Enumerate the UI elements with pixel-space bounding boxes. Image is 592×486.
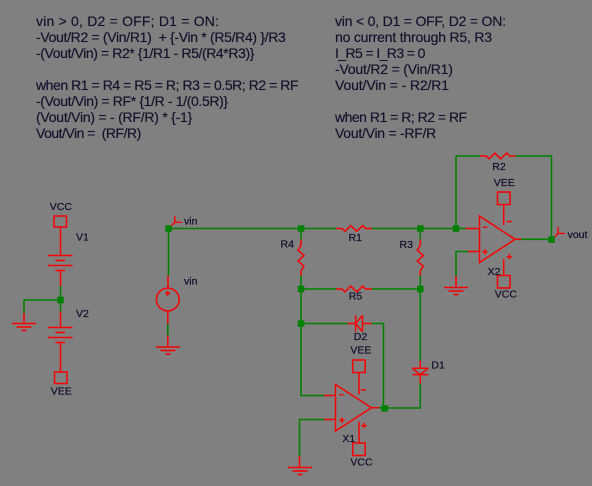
- wire VCC box to V1 top: [60, 227, 62, 256]
- junction node vin: [165, 225, 172, 232]
- diode D2 triangle: [356, 315, 363, 331]
- svg-text:VEE: VEE: [494, 177, 515, 189]
- ground symbol (under source vin): [156, 347, 180, 354]
- junction node X2 inverting input / feedback: [453, 225, 460, 232]
- battery V2: [48, 328, 73, 343]
- wire V1 bottom to mid-rail junction: [60, 286, 62, 297]
- op-amp X1 triangle: [336, 385, 372, 432]
- diode D1 (pointing down) top stub: [419, 361, 421, 369]
- op-amp X2 plus input mark: [482, 249, 487, 254]
- junction node D2 anode: [298, 320, 305, 327]
- wire R3 bottom stub: [419, 276, 421, 287]
- op-amp X1 VEE supply box: [353, 360, 366, 373]
- wire R5 right segment: [372, 288, 417, 290]
- svg-text:X2: X2: [488, 266, 501, 278]
- VCC supply port symbol (left rail): [54, 216, 67, 227]
- svg-text:vin: vin: [184, 276, 198, 288]
- junction node vout: [548, 236, 555, 243]
- source vin pin stub bottom: [167, 311, 169, 324]
- wire D2 cathode to X1 output junction: [372, 324, 384, 406]
- wire vin node to source vin: [168, 232, 170, 276]
- wire D1 to X1 output junction: [388, 384, 421, 409]
- wire vin rail: vin node to R1: [172, 228, 337, 230]
- op-amp X1 VEE pin wire: [358, 373, 360, 395]
- wire X2 output to vout junction: [521, 238, 549, 240]
- diode D2 (pointing left) anode stub: [348, 323, 357, 325]
- ground pin stub (X1 non-inverting input): [299, 456, 301, 468]
- svg-text:R3: R3: [400, 239, 414, 251]
- junction node R4 top: [298, 225, 305, 232]
- wire R5 left segment: [304, 288, 336, 290]
- op-amp X1 plus input mark: [339, 418, 344, 423]
- node flag marker vout: [553, 227, 565, 239]
- resistor R5 (horizontal): [336, 286, 372, 292]
- svg-text:V1: V1: [76, 232, 89, 244]
- ground pin stub (X2 non-inverting input): [455, 276, 457, 288]
- junction node left rail mid: [57, 297, 64, 304]
- op-amp X2 minus input mark: [483, 226, 487, 228]
- wire source vin to ground: [167, 324, 169, 336]
- junction node R4/R5 left: [298, 286, 305, 293]
- wire R2 left segment: [456, 155, 480, 157]
- resistor R4 (vertical): [298, 240, 304, 276]
- diode D2 cathode-side stub: [363, 323, 372, 325]
- svg-text:R2: R2: [492, 161, 506, 173]
- svg-text:D2: D2: [354, 331, 368, 343]
- wire vin rail: R1 to X2 inverting input: [372, 228, 466, 230]
- wire R4 bottom stub: [300, 276, 302, 287]
- wire mid-rail junction to left ground: [24, 300, 58, 313]
- wire V2 bottom to VEE box: [60, 343, 62, 373]
- wire X2 plus input to ground: [456, 252, 468, 277]
- wire D2 node down to X1 inverting input: [301, 327, 324, 396]
- voltage source vin (circle): [156, 288, 179, 311]
- op-amp X2 VCC polarity mark: [507, 254, 512, 259]
- op-amp X1 inverting input pin stub: [324, 395, 336, 397]
- resistor R2 (horizontal, feedback): [480, 153, 516, 159]
- node flag marker vin: [170, 216, 183, 228]
- op-amp X1 minus input mark: [339, 394, 343, 396]
- svg-text:X1: X1: [342, 433, 355, 445]
- wire R3 top stub: [419, 232, 421, 240]
- diode D1 bottom stub: [419, 375, 421, 384]
- ground pin stub (left ground): [23, 313, 25, 324]
- op-amp X2 VEE polarity mark: [507, 221, 512, 223]
- junction node R3 top: [417, 225, 424, 232]
- wire V1 bottom pin stub: [60, 271, 62, 287]
- op-amp X2 non-inverting input pin stub: [468, 251, 480, 253]
- wire R4/R5 node down to D2 node: [300, 292, 302, 321]
- wire D2 node to D2 anode: [304, 323, 348, 325]
- ground symbol (X1 non-inverting input): [288, 468, 312, 475]
- op-amp X2 output pin stub: [515, 238, 521, 240]
- wire X1 plus input to ground: [300, 420, 325, 457]
- wire mid-rail junction down: [60, 303, 62, 312]
- op-amp X2 VCC supply box: [498, 276, 511, 289]
- wire R2 right segment to vout vertical: [516, 156, 552, 237]
- svg-text:vout: vout: [568, 229, 588, 241]
- VEE supply port symbol (left rail): [55, 372, 68, 384]
- svg-text:VCC: VCC: [495, 289, 518, 301]
- wire X2 feedback left vertical: [455, 156, 457, 226]
- svg-text:R4: R4: [281, 238, 295, 250]
- analysis note: vin > 0 case (left text block): [36, 13, 298, 141]
- battery V1: [48, 256, 73, 271]
- op-amp X1 VEE polarity mark: [361, 389, 366, 391]
- ground symbol (left, mid-rail): [12, 324, 36, 331]
- ground pin stub (under source vin): [167, 336, 169, 348]
- svg-text:VCC: VCC: [50, 201, 73, 213]
- diode D1 cathode bar: [412, 374, 428, 376]
- resistor R3 (vertical): [417, 240, 423, 276]
- op-amp X1 non-inverting input pin stub: [324, 419, 336, 421]
- op-amp X2 VEE pin wire: [503, 205, 505, 226]
- op-amp X1 output pin stub: [372, 407, 380, 409]
- svg-text:VCC: VCC: [350, 457, 373, 469]
- op-amp X1 VCC pin wire: [358, 422, 360, 444]
- op-amp X2 triangle: [480, 216, 516, 263]
- svg-text:R1: R1: [349, 232, 363, 244]
- diode D1 triangle: [412, 368, 428, 374]
- svg-text:V2: V2: [76, 308, 89, 320]
- wire mid-rail junction to V2 top pin stub: [60, 312, 62, 328]
- wire R3/R5 node down to D1: [419, 292, 421, 361]
- op-amp X1 VCC polarity mark: [361, 423, 366, 428]
- wire X1 output stub to junction: [379, 407, 382, 409]
- ground symbol (X2 non-inverting input): [444, 288, 468, 295]
- svg-text:VEE: VEE: [350, 345, 371, 357]
- junction node X1 output: [381, 405, 387, 411]
- op-amp X2 VCC pin wire: [503, 259, 505, 276]
- svg-text:vin: vin: [184, 216, 198, 228]
- diode D2 cathode bar: [355, 315, 357, 331]
- plus polarity mark inside source vin: [165, 291, 170, 296]
- op-amp X2 VEE supply box: [498, 192, 511, 205]
- svg-text:R5: R5: [349, 290, 363, 302]
- svg-text:VEE: VEE: [51, 386, 72, 398]
- junction node R3/R5 right: [417, 286, 424, 293]
- source vin pin stub top: [167, 276, 169, 289]
- svg-text:D1: D1: [431, 360, 445, 372]
- op-amp X1 VCC supply box: [353, 443, 366, 456]
- resistor R1 (horizontal, on vin rail): [336, 226, 372, 232]
- wire R4 top stub: [300, 232, 302, 240]
- op-amp X2 inverting input pin stub: [466, 228, 480, 230]
- analysis note: vin < 0 case (right text block): [335, 13, 506, 141]
